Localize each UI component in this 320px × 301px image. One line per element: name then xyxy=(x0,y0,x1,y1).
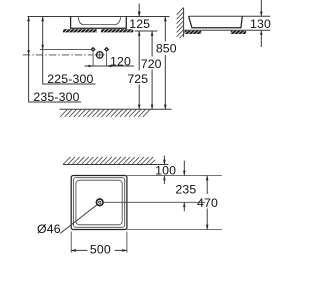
svg-text:130: 130 xyxy=(250,17,271,31)
svg-text:120: 120 xyxy=(110,54,131,68)
svg-text:850: 850 xyxy=(156,42,177,56)
svg-text:225-300: 225-300 xyxy=(47,72,93,86)
svg-text:720: 720 xyxy=(141,57,162,71)
svg-text:Ø46: Ø46 xyxy=(37,222,61,236)
svg-text:100: 100 xyxy=(155,164,176,178)
svg-text:235: 235 xyxy=(175,183,196,197)
svg-text:725: 725 xyxy=(127,72,148,86)
svg-text:500: 500 xyxy=(90,243,111,257)
svg-text:470: 470 xyxy=(197,196,218,210)
svg-text:125: 125 xyxy=(129,17,150,31)
svg-text:235-300: 235-300 xyxy=(33,90,79,104)
